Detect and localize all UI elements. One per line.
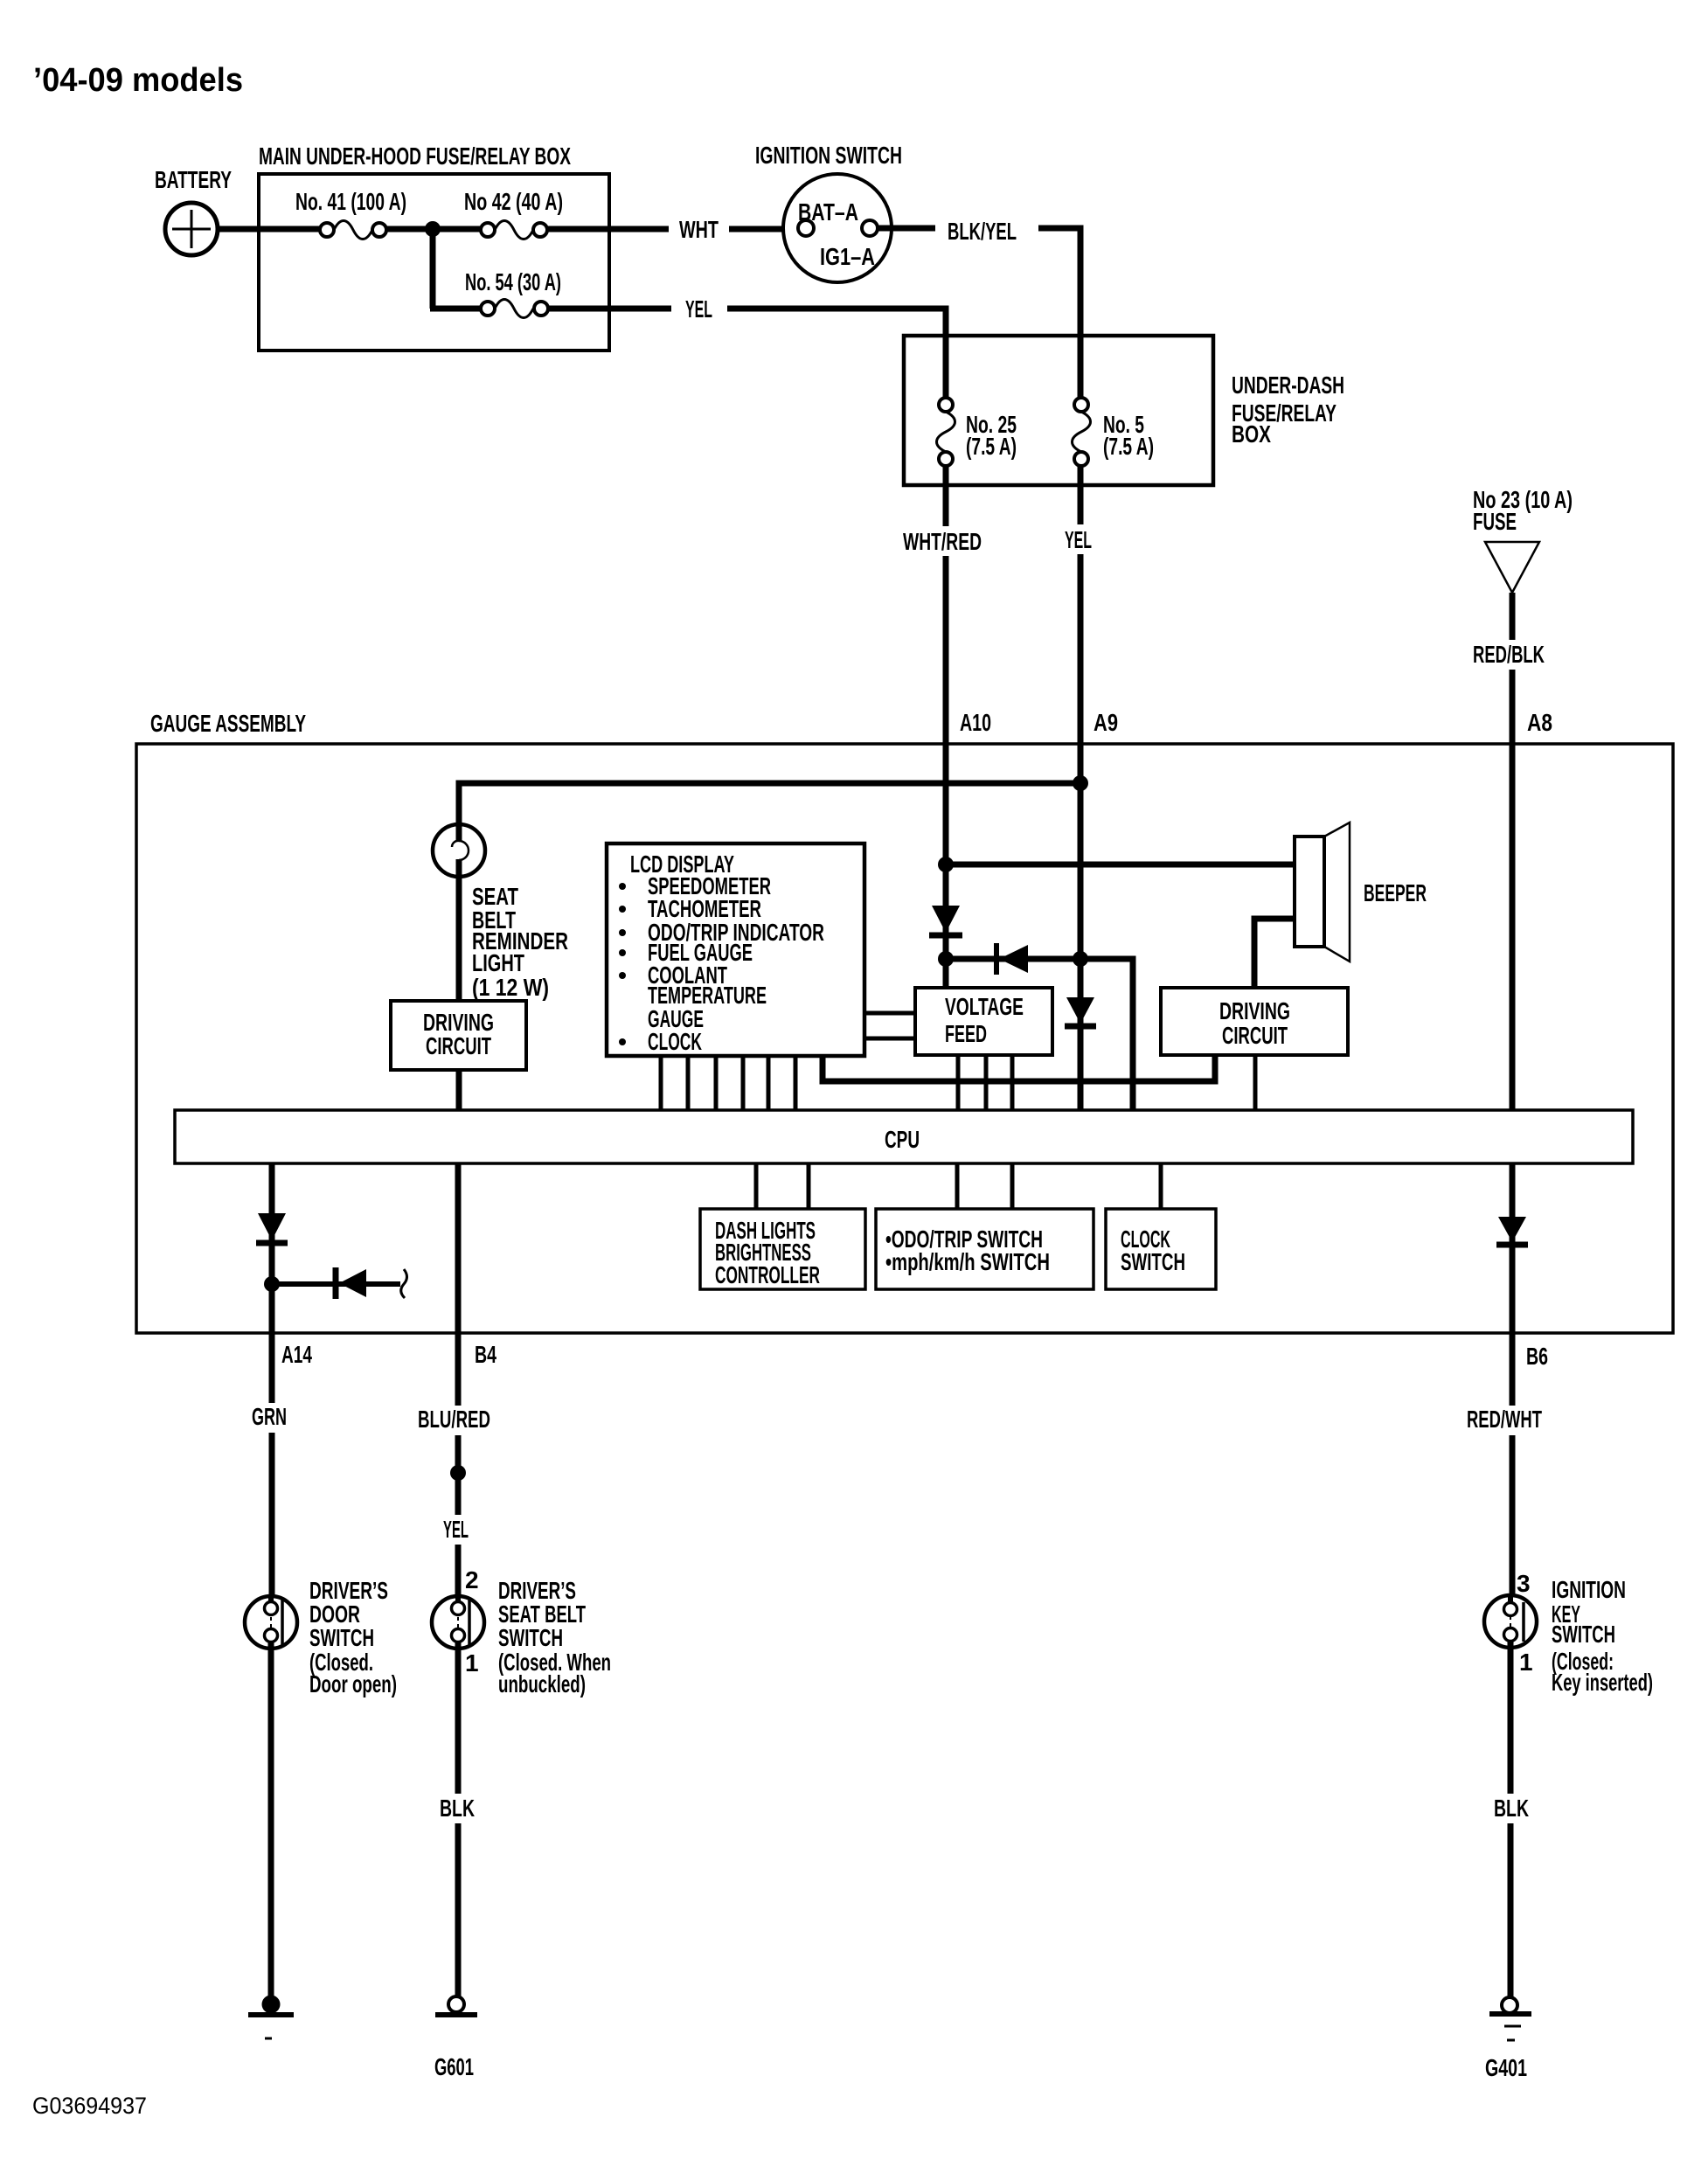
wire fuse41 to fuse42 [386, 226, 482, 233]
svg-text:SWITCH: SWITCH [1552, 1621, 1615, 1648]
LCD display box [607, 844, 864, 1056]
svg-text:IG1–A: IG1–A [820, 243, 875, 270]
svg-text:YEL: YEL [685, 295, 712, 323]
svg-text:YEL: YEL [443, 1516, 469, 1543]
gauge assembly box [136, 710, 1673, 1333]
svg-text:WHT/RED: WHT/RED [903, 528, 982, 555]
svg-text:SWITCH: SWITCH [309, 1624, 374, 1651]
wire voltage feed stub 1 [956, 1055, 961, 1110]
svg-text:•mph/km/h SWITCH: •mph/km/h SWITCH [885, 1248, 1050, 1275]
label YEL [440, 1515, 473, 1545]
wire voltage feed stub 3 [1010, 1055, 1015, 1110]
node junction A14 diode wire [264, 1276, 280, 1292]
svg-text:B4: B4 [475, 1341, 496, 1368]
svg-text:RED/BLK: RED/BLK [1473, 641, 1545, 668]
wire bulb feed horizontal [459, 783, 1080, 825]
node junction fuse41/fuse54 [425, 221, 441, 237]
wire LCD stub 3 [714, 1056, 719, 1110]
odo/trip switch box [876, 1209, 1094, 1289]
driving circuit box right [1161, 988, 1348, 1055]
svg-text:BLU/RED: BLU/RED [418, 1406, 490, 1433]
voltage feed box [915, 988, 1052, 1055]
svg-text:SWITCH: SWITCH [1121, 1248, 1185, 1275]
label YEL [1061, 524, 1096, 554]
wire YEL down to seat belt switch [455, 1473, 462, 1604]
wire beeper feed horizontal [946, 862, 1295, 868]
svg-text:(7.5 A): (7.5 A) [1103, 433, 1154, 460]
wire A10 inside gauge down to voltage feed [943, 744, 949, 989]
svg-text:BLK: BLK [440, 1795, 475, 1822]
svg-text:G401: G401 [1485, 2054, 1527, 2081]
label IGNITION KEY SWITCH (Closed: Key inserted) [1552, 1576, 1653, 1696]
svg-text:GRN: GRN [252, 1403, 287, 1430]
svg-text:RED/WHT: RED/WHT [1467, 1406, 1542, 1433]
svg-text:WHT: WHT [679, 216, 719, 243]
wire LCD to voltage feed lower [864, 1037, 915, 1041]
wire fuse54 to YEL label [548, 306, 671, 312]
svg-text:FEED: FEED [945, 1020, 987, 1047]
svg-text:A10: A10 [960, 709, 991, 736]
label WHT/RED [899, 526, 986, 556]
driver's door switch [245, 1596, 297, 1649]
dash lights brightness controller box [700, 1209, 865, 1289]
wire dash lights stub 1 [754, 1163, 759, 1209]
wire BLU/RED down to junction [455, 1333, 462, 1473]
clock switch box [1106, 1209, 1216, 1289]
node junction A9 diode wire [1073, 951, 1088, 967]
fuse No.23 (10 A) [1473, 486, 1573, 593]
wire driving circuit right to CPU [1253, 1055, 1258, 1110]
svg-text:BATTERY: BATTERY [155, 166, 232, 193]
svg-text:VOLTAGE: VOLTAGE [945, 993, 1024, 1020]
diode D5 pointing left [336, 1267, 407, 1299]
wire clock switch stub [1159, 1163, 1163, 1209]
label BLU/RED [414, 1406, 495, 1435]
svg-text:No 42 (40 A): No 42 (40 A) [464, 188, 563, 215]
wire GRN down to door switch [269, 1333, 275, 1604]
wire LCD stub 2 [686, 1056, 691, 1110]
diode D2 pointing left [996, 943, 1028, 975]
svg-text:B6: B6 [1526, 1343, 1548, 1370]
svg-text:UNDER-DASH: UNDER-DASH [1232, 371, 1344, 399]
diode D3 on A9 line [1065, 997, 1096, 1026]
seat belt reminder light bulb [433, 824, 485, 877]
wire seat belt switch down to ground [455, 1641, 462, 1997]
svg-text:CIRCUIT: CIRCUIT [1222, 1022, 1288, 1049]
beeper speaker symbol [1295, 823, 1427, 962]
fuse No.41 (100 A) [295, 188, 406, 240]
wire WHT/RED fuse25 down to gauge box [943, 466, 949, 744]
diode D4 on A14 line [256, 1213, 288, 1243]
wire BLK/YEL right and down to fuse5 [1038, 228, 1080, 399]
ignition key switch [1484, 1595, 1537, 1648]
svg-text:3: 3 [1517, 1570, 1531, 1597]
svg-text:GAUGE ASSEMBLY: GAUGE ASSEMBLY [150, 710, 306, 737]
svg-text:G601: G601 [434, 2053, 474, 2080]
svg-text:LIGHT: LIGHT [472, 949, 524, 976]
svg-text:MAIN UNDER-HOOD FUSE/RELAY BOX: MAIN UNDER-HOOD FUSE/RELAY BOX [259, 142, 571, 170]
svg-text:CONTROLLER: CONTROLLER [715, 1261, 820, 1288]
ground G401 [1485, 1997, 1531, 2081]
wire A14 CPU down [269, 1163, 275, 1333]
svg-text:Door open): Door open) [309, 1670, 397, 1697]
svg-text:IGNITION: IGNITION [1552, 1576, 1626, 1603]
wire fuse42 to WHT label [547, 226, 669, 233]
wire odo/trip stub 2 [1010, 1163, 1015, 1209]
driving circuit box left [391, 1001, 526, 1070]
diode D6 on B6 line [1496, 1217, 1528, 1245]
ground G601 [434, 1996, 477, 2080]
svg-text:unbuckled): unbuckled) [498, 1670, 586, 1697]
svg-text:BOX: BOX [1232, 420, 1271, 448]
wire LCD stub 4 [741, 1056, 746, 1110]
wire LCD stub 5 [767, 1056, 771, 1110]
wire A9 inside gauge down to CPU [1078, 744, 1084, 1110]
wire B6 CPU down [1510, 1163, 1516, 1333]
wire LCD to right driving circuit [823, 1055, 1215, 1081]
svg-text:SWITCH: SWITCH [498, 1624, 563, 1651]
wire YEL right and down to fuse25 [727, 309, 946, 399]
wire IG1-A to BLK/YEL label [878, 226, 935, 232]
svg-text:BLK/YEL: BLK/YEL [948, 218, 1017, 245]
svg-text:No. 41 (100 A): No. 41 (100 A) [295, 188, 406, 215]
wire driving circuit to CPU [456, 1070, 462, 1110]
wire voltage feed stub 2 [984, 1055, 989, 1110]
svg-text:A9: A9 [1094, 709, 1118, 736]
svg-text:2: 2 [465, 1566, 479, 1593]
svg-text:1: 1 [1519, 1649, 1533, 1676]
ignition switch IGNITION SWITCH [755, 142, 902, 282]
wire RED/BLK fuse23 down to gauge box [1510, 593, 1516, 744]
wire LCD stub 6 [794, 1056, 798, 1110]
wire A8 inside gauge down to CPU [1510, 744, 1516, 1110]
label RED/BLK [1469, 640, 1548, 670]
svg-text:YEL: YEL [1065, 526, 1092, 553]
label SEAT BELT REMINDER LIGHT (1 12 W) [472, 883, 568, 1001]
svg-text:’04-09 models: ’04-09 models [33, 62, 243, 99]
wire to fuse54 [430, 306, 482, 312]
wire RED/WHT down to ignition key switch [1510, 1333, 1516, 1605]
wire YEL fuse5 down to gauge box [1078, 466, 1084, 744]
wire B4 CPU down [455, 1163, 462, 1333]
driver's seat belt switch [432, 1596, 484, 1649]
svg-text:(7.5 A): (7.5 A) [966, 433, 1017, 460]
svg-text:1: 1 [465, 1649, 479, 1677]
battery BATTERY [155, 166, 232, 255]
label BLK left [436, 1794, 480, 1823]
svg-text:BLK: BLK [1494, 1795, 1529, 1822]
label DRIVER'S SEAT BELT SWITCH (Closed. When unbuckled) [498, 1577, 611, 1697]
wire diode D2 run [946, 959, 1133, 1110]
under-dash fuse/relay box [904, 336, 1344, 485]
svg-text:IGNITION SWITCH: IGNITION SWITCH [755, 142, 902, 169]
main under-hood fuse/relay box [259, 142, 609, 351]
wire dash lights stub 2 [807, 1163, 811, 1209]
wire door switch down to ground [268, 1641, 274, 2000]
wire diode D5 run [272, 1281, 400, 1287]
wire battery to fuse41 [217, 226, 322, 233]
label RED/WHT [1463, 1406, 1545, 1435]
label GRN [248, 1403, 290, 1433]
svg-text:G03694937: G03694937 [32, 2093, 147, 2119]
label DRIVER'S DOOR SWITCH (Closed. Door open) [309, 1577, 397, 1697]
svg-text:Key inserted): Key inserted) [1552, 1669, 1653, 1696]
svg-text:No. 54 (30 A): No. 54 (30 A) [465, 268, 561, 295]
node junction A10 beeper wire [938, 857, 954, 872]
label BLK right [1490, 1794, 1534, 1823]
svg-text:FUSE: FUSE [1473, 508, 1517, 535]
svg-text:CLOCK: CLOCK [648, 1028, 702, 1055]
wire WHT to ignition switch [729, 226, 799, 233]
CPU bar [175, 1110, 1633, 1163]
wire LCD to voltage feed upper [864, 1011, 915, 1016]
ground body ground left [248, 1996, 294, 2039]
svg-text:A14: A14 [281, 1341, 312, 1368]
wire ignition key switch down to ground [1508, 1640, 1514, 1998]
wire odo/trip stub 1 [955, 1163, 960, 1209]
wire beeper to driving circuit right [1254, 919, 1295, 989]
node junction B4 YEL [450, 1465, 466, 1481]
node junction A9 bulb wire [1073, 775, 1088, 791]
svg-text:DRIVING: DRIVING [1219, 997, 1290, 1024]
svg-text:BAT–A: BAT–A [798, 198, 858, 226]
wire junction down to fuse54 [430, 229, 436, 309]
fuse No.25 (7.5 A) [937, 398, 1017, 466]
svg-text:CPU: CPU [885, 1126, 920, 1153]
fuse No.5 (7.5 A) [1073, 398, 1155, 466]
svg-text:CIRCUIT: CIRCUIT [426, 1032, 491, 1059]
svg-text:(1 12 W): (1 12 W) [472, 974, 549, 1001]
node junction A10 diode wire [938, 951, 954, 967]
wire LCD stub 1 [659, 1056, 663, 1110]
svg-text:BEEPER: BEEPER [1364, 879, 1427, 906]
fuse No.54 (30 A) [465, 268, 561, 318]
wire bulb to driving circuit [456, 876, 462, 1003]
svg-text:A8: A8 [1527, 709, 1552, 736]
diode D1 on A10 line [929, 906, 962, 935]
fuse No.42 (40 A) [464, 188, 563, 240]
